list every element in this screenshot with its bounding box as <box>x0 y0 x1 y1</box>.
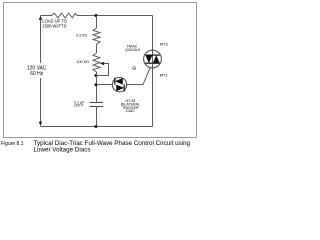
label TRIAC Q2015L5 <box>125 44 140 52</box>
diac D1 circle <box>112 77 126 91</box>
wire: right rail (MT2 to MT1 through triac) <box>152 16 154 127</box>
svg-text:Q2015L5: Q2015L5 <box>125 48 140 52</box>
wire: top horizontal from left terminal to load <box>41 15 53 17</box>
node: top junction dot at branch <box>95 14 98 17</box>
triac left triangle (pointing down) <box>145 55 152 63</box>
diac triangle (upper, pointing left) <box>115 78 123 85</box>
wire: gate diagonal into triac <box>143 68 150 85</box>
resistor R1 3.3 K (vertical zigzag) <box>93 28 100 44</box>
label 0.1 uF 100 V <box>74 100 85 107</box>
label 120 VAC 60 Hz <box>27 65 47 77</box>
capacitor C1 bottom plate <box>90 106 104 108</box>
svg-text:60 Hz: 60 Hz <box>30 71 44 77</box>
potentiometer R2 100 K (vertical zigzag) <box>93 53 100 72</box>
wire: left rail upper segment <box>40 19 42 63</box>
wire: vertical rail from pot down to capacitor <box>96 72 98 102</box>
svg-text:G: G <box>132 65 136 71</box>
capacitor C1 top plate <box>90 102 104 104</box>
svg-text:1500 WATTS: 1500 WATTS <box>42 24 66 29</box>
triac Q1 circle <box>144 50 162 68</box>
svg-text:3.3 KΩ: 3.3 KΩ <box>76 34 88 38</box>
wire: between R1 and potentiometer <box>96 44 98 53</box>
resistor LOAD (zigzag on top wire) <box>52 13 78 18</box>
triac top bar <box>145 54 159 56</box>
svg-text:MT1: MT1 <box>160 73 169 78</box>
diac bar (left) <box>114 78 116 85</box>
diac bar (right) <box>123 84 125 91</box>
wire: wiper loop to lower pot terminal <box>97 64 109 76</box>
svg-text:100 KΩ: 100 KΩ <box>76 60 89 64</box>
AC terminal arrow (bottom, pointing down) <box>39 122 42 127</box>
svg-text:Figure 8.1: Figure 8.1 <box>1 141 24 147</box>
node: diac branch junction dot <box>95 83 98 86</box>
diac triangle (lower, pointing right) <box>116 85 124 92</box>
node: wiper tie junction dot <box>95 74 98 77</box>
AC terminal arrow (top, pointing up) <box>39 15 42 20</box>
label HT-35 BILATERAL TRIGGER DIAC <box>121 99 140 113</box>
wire: bottom horizontal rail <box>41 126 153 128</box>
potentiometer wiper arrow <box>100 62 104 66</box>
wire: left rail lower segment <box>40 78 42 122</box>
wire: top horizontal from load to right rail corner <box>77 15 153 17</box>
svg-text:Lower Voltage Diacs: Lower Voltage Diacs <box>34 146 91 153</box>
wire: capacitor to bottom rail <box>96 107 98 127</box>
triac bottom bar <box>145 62 159 64</box>
wire: horizontal to diac <box>97 84 113 86</box>
node: bottom rail junction dot <box>95 125 98 128</box>
wire: branch from top wire down to R1 <box>96 16 98 29</box>
wire: diac to gate bend <box>127 84 143 86</box>
label LOAD UP TO 1500 WATTS <box>42 19 67 29</box>
svg-text:DIAC: DIAC <box>126 109 135 113</box>
svg-text:100 V: 100 V <box>74 104 84 108</box>
border frame of figure box <box>4 3 197 138</box>
svg-text:MT2: MT2 <box>160 42 169 47</box>
triac right triangle (pointing up) <box>153 55 160 63</box>
